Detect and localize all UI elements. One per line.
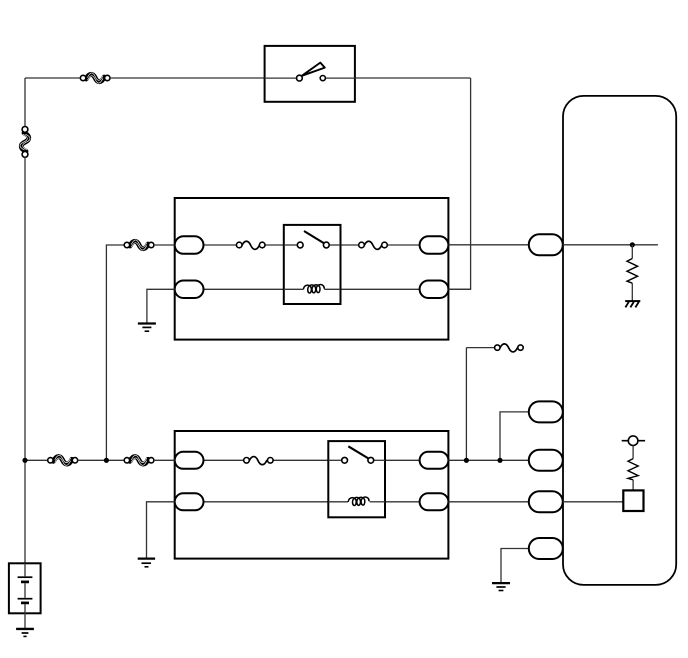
wire FL3 to RB1 xyxy=(154,244,175,246)
connector pill PE3 xyxy=(529,450,563,471)
wire left vertical upper xyxy=(24,78,26,127)
switch SW1 contact left xyxy=(297,75,303,81)
wire RB1 to ECU row1 xyxy=(448,244,528,246)
relay RL1 coil L1 xyxy=(303,285,324,294)
ECU module box xyxy=(563,96,676,585)
ground G4 xyxy=(16,629,34,637)
fuse FU2 xyxy=(359,241,388,249)
wire FL5 to RB2 xyxy=(154,459,175,461)
ground G1 xyxy=(138,324,156,332)
wire RB2 ground lead xyxy=(147,502,175,558)
relay block box RB1 xyxy=(175,198,449,340)
connector pill PE1 xyxy=(529,234,563,255)
resistor R2 xyxy=(628,459,638,491)
ground G2 xyxy=(138,559,155,567)
wire vertical from switch down xyxy=(448,78,470,289)
wire top horizontal to switch box xyxy=(110,77,265,79)
connector pill P22 xyxy=(175,493,204,510)
wire ECU row4 internal xyxy=(563,501,624,503)
fusible link FL1 xyxy=(80,73,110,83)
connector pill P14 xyxy=(420,281,449,299)
connector pill P21 xyxy=(175,452,204,469)
switch SW1 blade xyxy=(302,63,325,76)
wire SW1 internal left xyxy=(265,77,297,79)
connector pill P24 xyxy=(420,493,449,510)
wire RB1 row2 coil row xyxy=(204,288,304,290)
relay RL1 box xyxy=(284,225,341,304)
relay RL2 blade xyxy=(348,446,369,459)
connector pill P11 xyxy=(175,236,204,254)
wire RL2 inside right xyxy=(374,459,385,461)
connector pill PE5 xyxy=(529,538,563,559)
wire RL1 coil leads xyxy=(284,288,303,290)
node junction dot mid xyxy=(104,458,109,463)
relay RL1 contact left xyxy=(297,242,303,248)
wire left vertical lower xyxy=(24,157,26,563)
relay RL2 box xyxy=(328,441,385,517)
connector pill PE4 xyxy=(529,491,563,512)
fuse FU4 xyxy=(466,344,523,352)
wire RL2 inside left xyxy=(328,459,341,461)
wire RB1 ground lead xyxy=(147,289,175,322)
connector pill PE2 xyxy=(529,401,563,422)
switch box SW1 xyxy=(265,46,355,102)
wire RB1 to switch vertical row2 xyxy=(448,288,470,290)
wire from vertical to FL3 xyxy=(106,245,124,460)
wire RB2 row4 coil row xyxy=(204,501,349,503)
wire FU4 vertical to row3 xyxy=(465,348,467,461)
connector pill P12 xyxy=(175,281,204,299)
fuse FU1 xyxy=(236,241,265,249)
relay RL2 contact right xyxy=(368,457,374,463)
relay RL1 contact right xyxy=(323,242,329,248)
node junction dot row3 a xyxy=(464,458,469,463)
wire RL1 inside right xyxy=(329,244,340,246)
relay block box RB2 xyxy=(175,431,449,559)
sensor S1 circle xyxy=(622,436,645,459)
fusible link FL2 xyxy=(20,133,30,151)
wire from SW1 to right vertical xyxy=(355,77,471,79)
wire bottom main row3 left xyxy=(25,459,48,461)
relay RL1 blade xyxy=(304,231,325,244)
fusible link FL5 xyxy=(124,455,154,465)
connector pill P23 xyxy=(420,452,449,469)
wire RL2 coil leads xyxy=(328,501,348,503)
driver block U1 xyxy=(623,490,643,511)
battery B1 xyxy=(9,563,41,628)
chassis ground G5 xyxy=(625,301,640,307)
wire ECU row1 internal xyxy=(563,244,658,246)
wire RB1 row1 segments xyxy=(204,244,237,246)
node junction dot row1 xyxy=(630,242,635,247)
wire SW1 internal right xyxy=(326,77,355,79)
ground G3 xyxy=(492,583,510,590)
node junction dot row3 b xyxy=(497,458,502,463)
wire PE5 to ground xyxy=(501,549,529,583)
relay RL2 contact left xyxy=(342,457,348,463)
switch SW1 contact right xyxy=(320,76,325,81)
wire RB2 to ECU row3 xyxy=(448,459,528,461)
wire PE2 to row3 xyxy=(500,412,529,460)
fusible link FL4 xyxy=(48,455,78,465)
wire top horizontal left segment xyxy=(25,77,80,79)
connector pill P13 xyxy=(420,236,449,254)
wire RL1 inside left xyxy=(284,244,298,246)
wire RB2 row3 segments xyxy=(204,459,244,461)
fuse FU3 xyxy=(244,457,273,465)
wire between links xyxy=(78,459,125,461)
relay RL2 coil L2 xyxy=(348,497,369,506)
wire RB2 to ECU row4 xyxy=(448,501,528,503)
fusible link FL3 xyxy=(124,240,154,250)
node junction dot left xyxy=(22,458,27,463)
resistor R1 xyxy=(627,245,638,301)
